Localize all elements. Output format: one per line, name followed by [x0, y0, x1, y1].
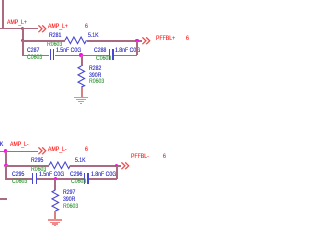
capacitor C287 plates	[50, 49, 51, 59]
resistor R282 zigzag	[77, 66, 86, 87]
label R297	[63, 190, 75, 196]
label 1.8nF C0G	[115, 48, 140, 54]
wire: R281 row left segment	[22, 40, 65, 42]
resistor R281 zigzag	[65, 36, 87, 45]
wire: R281 row right segment	[87, 40, 143, 42]
net label AMP_L+	[7, 20, 27, 26]
junction dot at R295 row	[4, 164, 8, 168]
junction dot at R282 tap	[79, 53, 83, 57]
off-page port chevron (PFFBL+)	[142, 37, 151, 45]
label C0603	[27, 55, 42, 61]
label C295	[12, 172, 24, 178]
label R281	[49, 33, 61, 39]
page number 6	[186, 36, 189, 42]
wire: riser from cap row up to PFFBL- wire	[116, 166, 118, 179]
wire: cap row segment to C295	[5, 178, 32, 180]
label C0603	[71, 179, 86, 185]
page number 6	[85, 24, 88, 30]
junction dot at AMP_L+ branch	[21, 27, 25, 31]
junction dot at R297 tap	[54, 177, 58, 181]
resistor R297 zigzag	[51, 190, 60, 211]
label C287	[27, 48, 39, 54]
off-page port chevron (PFFBL-)	[121, 162, 130, 170]
junction dot at AMP_L- branch	[4, 149, 8, 153]
label R295	[31, 158, 43, 164]
capacitor C288 plates	[109, 49, 110, 59]
resistor R282 top lead	[81, 55, 83, 66]
label 1.5nF C0G	[39, 172, 64, 178]
resistor R295 zigzag	[49, 161, 71, 170]
label C0603	[12, 179, 27, 185]
label C288	[94, 48, 106, 54]
ground symbol GND (top section)	[74, 97, 88, 98]
wire: cap row segment C288 to riser	[114, 55, 137, 57]
junction dot at PFFBL- riser	[115, 164, 119, 168]
wire: riser from cap row up to PFFBL+ wire	[136, 41, 138, 55]
wire: vertical branch down from AMP_L+	[22, 28, 24, 55]
ground symbol GND (bottom section)	[48, 219, 62, 220]
wire: cap row segment C287-C288	[55, 55, 109, 57]
label R0603	[89, 79, 104, 85]
off-page port chevron (AMP_L-)	[38, 147, 47, 155]
wire: cap row segment C295-C296	[37, 178, 84, 180]
resistor R297 bottom lead	[54, 211, 56, 219]
net label AMP_L-	[10, 142, 29, 148]
port label PFFBL+	[156, 36, 175, 42]
port label AMP_L-	[48, 147, 67, 153]
wire: R295 row right segment	[70, 165, 121, 167]
resistor R282 bottom lead	[81, 87, 83, 98]
label 5.1K	[88, 33, 99, 39]
page number 6	[163, 154, 166, 160]
junction dot at PFFBL+ riser	[135, 39, 139, 43]
label R282	[89, 66, 101, 72]
label R0603	[47, 42, 62, 48]
wire: cap row segment C296 to riser	[89, 178, 117, 180]
wire: cap row segment to C287	[22, 55, 49, 57]
label 390R	[63, 197, 75, 203]
label C0603	[96, 56, 111, 62]
resistor R297 top lead	[54, 179, 56, 191]
label 1.8nF C0G	[91, 172, 116, 178]
partial value label 1K (clipped at left edge)	[0, 142, 4, 148]
capacitor C296 plates	[84, 173, 85, 183]
wire stub at left edge	[0, 198, 7, 200]
label 1.5nF C0G	[56, 48, 81, 54]
page number 6	[85, 147, 88, 153]
wire: AMP_L- horizontal run to off-page port	[0, 151, 38, 153]
junction dot at R281 row	[21, 39, 25, 43]
port label PFFBL-	[131, 154, 149, 160]
label R0603	[31, 167, 46, 173]
label C296	[70, 172, 82, 178]
port label AMP_L+	[48, 24, 68, 30]
capacitor C295 plates	[32, 173, 33, 183]
wire: vertical branch down from AMP_L-	[5, 151, 7, 179]
wire: R295 row left segment	[5, 165, 48, 167]
off-page port chevron (AMP_L+)	[38, 25, 47, 33]
label 390R	[89, 73, 101, 79]
label R0603	[63, 204, 78, 210]
wire: AMP_L+ vertical stub from top edge	[2, 0, 4, 29]
label 5.1K	[75, 158, 86, 164]
wire: AMP_L+ horizontal run to off-page port	[0, 28, 38, 30]
